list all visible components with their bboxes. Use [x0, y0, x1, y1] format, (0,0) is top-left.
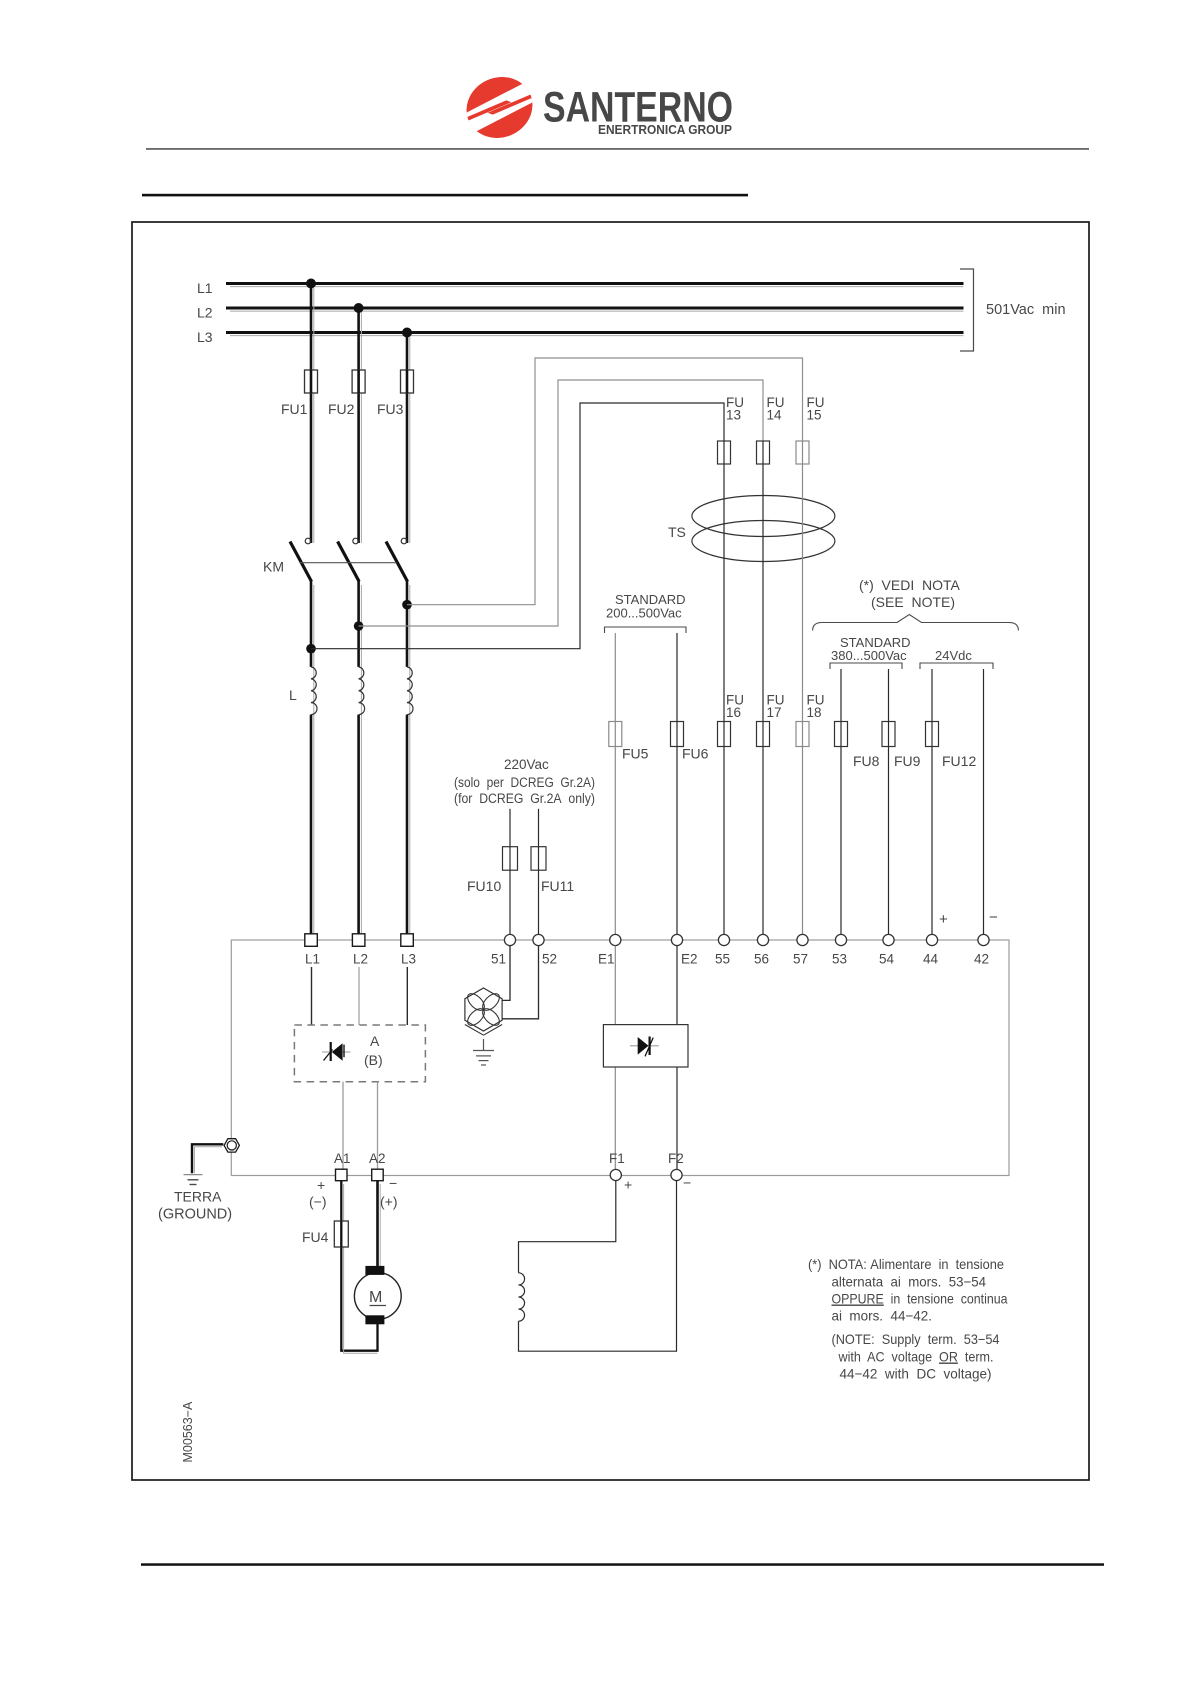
node tap phase 3 [402, 600, 412, 610]
svg-text:(*) VEDI NOTA: (*) VEDI NOTA [859, 577, 961, 593]
svg-text:E2: E2 [681, 952, 698, 967]
svg-text:FU2: FU2 [328, 401, 355, 417]
terminal E2 circle [671, 934, 697, 966]
svg-text:FU4: FU4 [302, 1229, 329, 1245]
phase line L2 [197, 305, 964, 321]
transformer TS ellipse secondary [692, 521, 835, 562]
svg-text:52: 52 [542, 952, 557, 967]
fuse FU13 [718, 395, 745, 464]
inductor L phase 2 [359, 667, 365, 715]
svg-text:18: 18 [807, 705, 822, 720]
terminal L3 square [401, 934, 416, 967]
wire tap L1 to FU13 column [311, 403, 724, 649]
wire field winding to F2 [519, 1181, 677, 1352]
title underline rule [142, 194, 748, 197]
motor M [354, 1266, 401, 1324]
wire 52 to fan [500, 946, 539, 1019]
svg-text:M: M [369, 1289, 382, 1306]
svg-text:15: 15 [807, 408, 822, 423]
thyristor field [630, 1037, 659, 1057]
svg-text:E1: E1 [598, 952, 615, 967]
svg-text:L1: L1 [305, 952, 320, 967]
wire bridge to A2 [377, 1082, 379, 1170]
svg-text:(B): (B) [364, 1052, 383, 1068]
svg-text:FU10: FU10 [467, 878, 501, 894]
svg-text:220Vac: 220Vac [504, 757, 549, 772]
svg-text:L1: L1 [197, 280, 213, 296]
fan ground [473, 1039, 494, 1065]
logo Santerno red mark [456, 67, 542, 149]
svg-text:KM: KM [263, 559, 284, 575]
svg-text:−: − [389, 1175, 397, 1191]
wire tap L3 to FU15 column [407, 358, 803, 605]
svg-text:M00563−A: M00563−A [181, 1401, 195, 1462]
fuse FU9 [882, 722, 921, 770]
armature bridge dashed box [294, 1025, 425, 1082]
svg-text:(−): (−) [309, 1194, 327, 1210]
wire E1 column [614, 633, 616, 935]
fuse FU17 [757, 693, 785, 747]
terminal 52 circle [533, 934, 557, 966]
svg-text:44−42 with DC voltage): 44−42 with DC voltage) [840, 1366, 992, 1382]
wire earth [192, 1144, 223, 1173]
terminal 53 circle [832, 934, 847, 966]
wire terminal 51 column [509, 809, 511, 935]
svg-text:FU9: FU9 [894, 753, 921, 769]
terminal L1 square [305, 934, 320, 967]
svg-text:44: 44 [923, 952, 939, 967]
inductor L phase 3 [407, 667, 413, 715]
svg-text:A: A [370, 1033, 380, 1049]
ground symbol TERRA [184, 1175, 203, 1185]
svg-text:17: 17 [767, 705, 782, 720]
wire L1 square to armature bridge [311, 967, 313, 1025]
svg-text:(SEE NOTE): (SEE NOTE) [871, 594, 955, 610]
svg-text:(GROUND): (GROUND) [158, 1207, 232, 1223]
fuse FU18 [796, 693, 825, 747]
field winding inductor [519, 1273, 525, 1321]
svg-text:14: 14 [767, 408, 783, 423]
wire terminal 53 column [840, 669, 842, 935]
contactor KM pole 2 [338, 538, 360, 581]
svg-text:+: + [624, 1177, 632, 1193]
svg-text:−: − [989, 909, 998, 926]
bottom footer rule [141, 1563, 1104, 1566]
wire tap L2 to FU14 column [359, 380, 763, 626]
wire FU14 column [762, 441, 764, 935]
svg-text:FU5: FU5 [622, 746, 649, 762]
svg-text:FU1: FU1 [281, 401, 308, 417]
wire E2 column [676, 633, 678, 935]
supply bracket 501Vac min [960, 269, 1066, 351]
fuse FU10 [467, 847, 518, 894]
svg-text:TS: TS [668, 524, 686, 540]
svg-text:FU3: FU3 [377, 401, 404, 417]
svg-text:ENERTRONICA GROUP: ENERTRONICA GROUP [598, 122, 732, 137]
svg-text:380...500Vac: 380...500Vac [831, 648, 907, 663]
svg-text:ai mors. 44−42.: ai mors. 44−42. [832, 1308, 933, 1324]
wire 51 to fan [501, 946, 510, 1001]
svg-text:A1: A1 [334, 1151, 351, 1166]
svg-text:(NOTE: Supply term. 53−54: (NOTE: Supply term. 53−54 [832, 1331, 1000, 1347]
bracket standard 380-500Vac [830, 663, 902, 669]
wire terminal 54 column [888, 669, 890, 935]
wire E2 to F2 through field bridge [676, 946, 678, 1170]
svg-text:TERRA: TERRA [174, 1189, 222, 1205]
fuse FU1 [281, 370, 318, 417]
svg-text:57: 57 [793, 952, 808, 967]
transformer TS ellipse primary [692, 496, 835, 537]
contactor KM linkage [300, 562, 397, 564]
terminal 44 circle [923, 934, 939, 966]
bracket standard 200-500Vac [605, 627, 687, 633]
fuse FU15 [796, 395, 825, 464]
wire phase 1 feeder lower [311, 581, 314, 934]
terminal 55 circle [715, 934, 730, 966]
earth hex bolt [224, 1139, 239, 1152]
svg-text:FU6: FU6 [682, 746, 709, 762]
fuse FU4 [302, 1221, 348, 1247]
brace see note [813, 615, 1019, 631]
svg-text:L2: L2 [197, 305, 213, 321]
fuse FU11 [531, 847, 574, 894]
DCREG drive enclosure box [231, 940, 1009, 1176]
wire FU13 column [723, 441, 725, 935]
svg-text:FU11: FU11 [541, 878, 574, 894]
wire phase 3 feeder upper [407, 333, 410, 544]
wire E1 to F1 through field bridge [614, 946, 616, 1170]
svg-text:56: 56 [754, 952, 769, 967]
wire FU15 column [802, 441, 804, 935]
svg-text:+: + [317, 1177, 325, 1193]
wire terminal 42 column [983, 669, 985, 935]
header rule [146, 148, 1089, 149]
node junction on L1 [306, 279, 316, 289]
wire phase 2 feeder upper [359, 308, 362, 543]
wire L3 square to armature bridge [406, 967, 408, 1025]
wire bridge to A1 [342, 1082, 344, 1170]
svg-text:alternata ai mors. 53−54: alternata ai mors. 53−54 [832, 1274, 987, 1290]
svg-text:L2: L2 [353, 952, 368, 967]
field bridge box [603, 1025, 688, 1067]
node tap phase 2 [354, 621, 364, 631]
svg-text:54: 54 [879, 952, 895, 967]
terminal A1 square [334, 1151, 351, 1181]
svg-text:L3: L3 [401, 952, 416, 967]
svg-text:42: 42 [974, 952, 989, 967]
svg-text:(solo per DCREG Gr.2A): (solo per DCREG Gr.2A) [454, 775, 595, 790]
svg-text:51: 51 [491, 952, 506, 967]
svg-text:L: L [289, 687, 297, 703]
fuse FU16 [718, 693, 745, 747]
terminal 56 circle [754, 934, 769, 966]
fuse FU14 [757, 395, 785, 464]
fuse FU12 [926, 722, 977, 770]
svg-text:16: 16 [726, 705, 741, 720]
wire phase 1 feeder upper [311, 284, 314, 544]
terminal 54 circle [879, 934, 895, 966]
terminal 42 circle [974, 934, 989, 966]
svg-text:FU12: FU12 [942, 753, 976, 769]
inductor L phase 1 [311, 667, 317, 715]
svg-text:13: 13 [726, 408, 741, 423]
svg-text:(for DCREG Gr.2A only): (for DCREG Gr.2A only) [454, 791, 595, 806]
svg-text:−: − [683, 1175, 691, 1191]
svg-text:OPPURE in tensione continua: OPPURE in tensione continua [832, 1291, 1008, 1307]
note text english [832, 1331, 1000, 1382]
phase line L1 [197, 280, 964, 296]
wire L2 square to armature bridge [358, 967, 360, 1025]
fuse FU5 [609, 722, 649, 762]
wire phase 2 feeder lower [359, 581, 362, 934]
wire F1 to field winding [519, 1181, 616, 1273]
svg-text:53: 53 [832, 952, 847, 967]
svg-text:F1: F1 [609, 1151, 625, 1166]
node junction on L2 [354, 303, 364, 313]
svg-text:24Vdc: 24Vdc [935, 648, 972, 663]
svg-text:+: + [939, 911, 948, 928]
terminal E1 circle [598, 934, 621, 966]
thyristor armature [322, 1042, 350, 1061]
svg-text:FU8: FU8 [853, 753, 880, 769]
wire A2 to motor [378, 1181, 381, 1266]
fuse FU8 [835, 722, 880, 770]
terminal A2 square [369, 1151, 386, 1181]
fuse FU2 [328, 370, 365, 417]
svg-text:501Vac min: 501Vac min [986, 302, 1066, 318]
contactor KM pole 3 [386, 538, 408, 581]
node tap phase 1 [306, 644, 316, 654]
svg-text:(+): (+) [380, 1194, 398, 1210]
svg-text:200...500Vac: 200...500Vac [606, 606, 682, 621]
bracket 24Vdc [920, 663, 993, 669]
wire terminal 52 column [538, 809, 540, 935]
svg-text:A2: A2 [369, 1151, 386, 1166]
note text italian [808, 1256, 1008, 1324]
terminal L2 square [352, 934, 368, 967]
contactor KM pole 1 [290, 538, 312, 581]
terminal 57 circle [793, 934, 808, 966]
terminal F2 circle [668, 1151, 684, 1181]
wire A1 to motor loop [341, 1181, 377, 1354]
svg-text:L3: L3 [197, 329, 213, 345]
node junction on L3 [402, 328, 412, 338]
svg-text:55: 55 [715, 952, 730, 967]
schematic outer border [132, 222, 1089, 1480]
svg-text:with AC voltage OR term.: with AC voltage OR term. [838, 1349, 994, 1365]
phase line L3 [197, 329, 964, 345]
svg-text:F2: F2 [668, 1151, 684, 1166]
wire terminal 44 column [931, 669, 933, 935]
terminal 51 circle [491, 934, 516, 966]
svg-text:(*) NOTA: Alimentare in ten: (*) NOTA: Alimentare in tensione [808, 1256, 1004, 1272]
terminal F1 circle [609, 1151, 625, 1181]
fan symbol hexagon [465, 988, 503, 1035]
wire phase 3 feeder lower [407, 581, 410, 934]
fuse FU3 [377, 370, 414, 417]
fuse FU6 [671, 722, 709, 762]
